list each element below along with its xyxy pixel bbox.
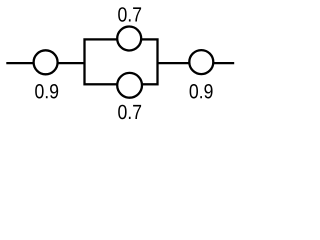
wire: left input lead to parallel block: [6, 62, 84, 64]
component C2 (reliability 0.7, parallel top branch): [117, 27, 141, 51]
component C4 (reliability 0.9, series right): [189, 50, 213, 74]
value label 0.9 (left series component): [35, 84, 58, 99]
parallel block rectangle: [85, 39, 158, 84]
wire: parallel block to right output lead: [158, 62, 235, 64]
value label 0.9 (right series component): [190, 84, 213, 99]
value label 0.7 (top branch component): [118, 7, 141, 22]
component C1 (reliability 0.9, series left): [34, 50, 58, 74]
value label 0.7 (bottom branch component): [118, 105, 141, 120]
component C3 (reliability 0.7, parallel bottom branch): [117, 73, 142, 98]
